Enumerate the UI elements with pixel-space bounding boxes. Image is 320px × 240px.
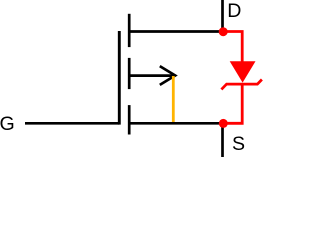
wire source terminal <box>221 126 224 157</box>
transistor gate plate <box>118 31 121 125</box>
transistor channel segment top <box>128 14 131 47</box>
diode D1 body (red triangle) <box>230 61 256 82</box>
wire bulk to source (orange) <box>172 76 175 122</box>
svg-text:S: S <box>232 133 245 155</box>
node source junction dot <box>219 119 228 128</box>
transistor channel segment bottom <box>128 105 131 134</box>
label G <box>0 113 15 135</box>
label S <box>232 133 245 155</box>
svg-text:G: G <box>0 113 15 135</box>
wire drain terminal <box>221 0 224 29</box>
transistor channel segment middle <box>128 58 131 89</box>
wire gate lead from G <box>25 122 119 125</box>
diode D1 cathode bar (zener style) <box>221 80 262 90</box>
wire source connection <box>129 122 223 125</box>
arrowhead bulk arrow <box>160 66 175 85</box>
wire diode top (red) <box>223 32 242 62</box>
node drain junction dot <box>219 27 228 36</box>
wire diode bottom (red) <box>223 84 242 123</box>
wire bulk arrow shaft <box>129 74 175 77</box>
svg-text:D: D <box>227 0 241 22</box>
label D <box>227 0 241 22</box>
wire drain connection <box>129 30 223 33</box>
